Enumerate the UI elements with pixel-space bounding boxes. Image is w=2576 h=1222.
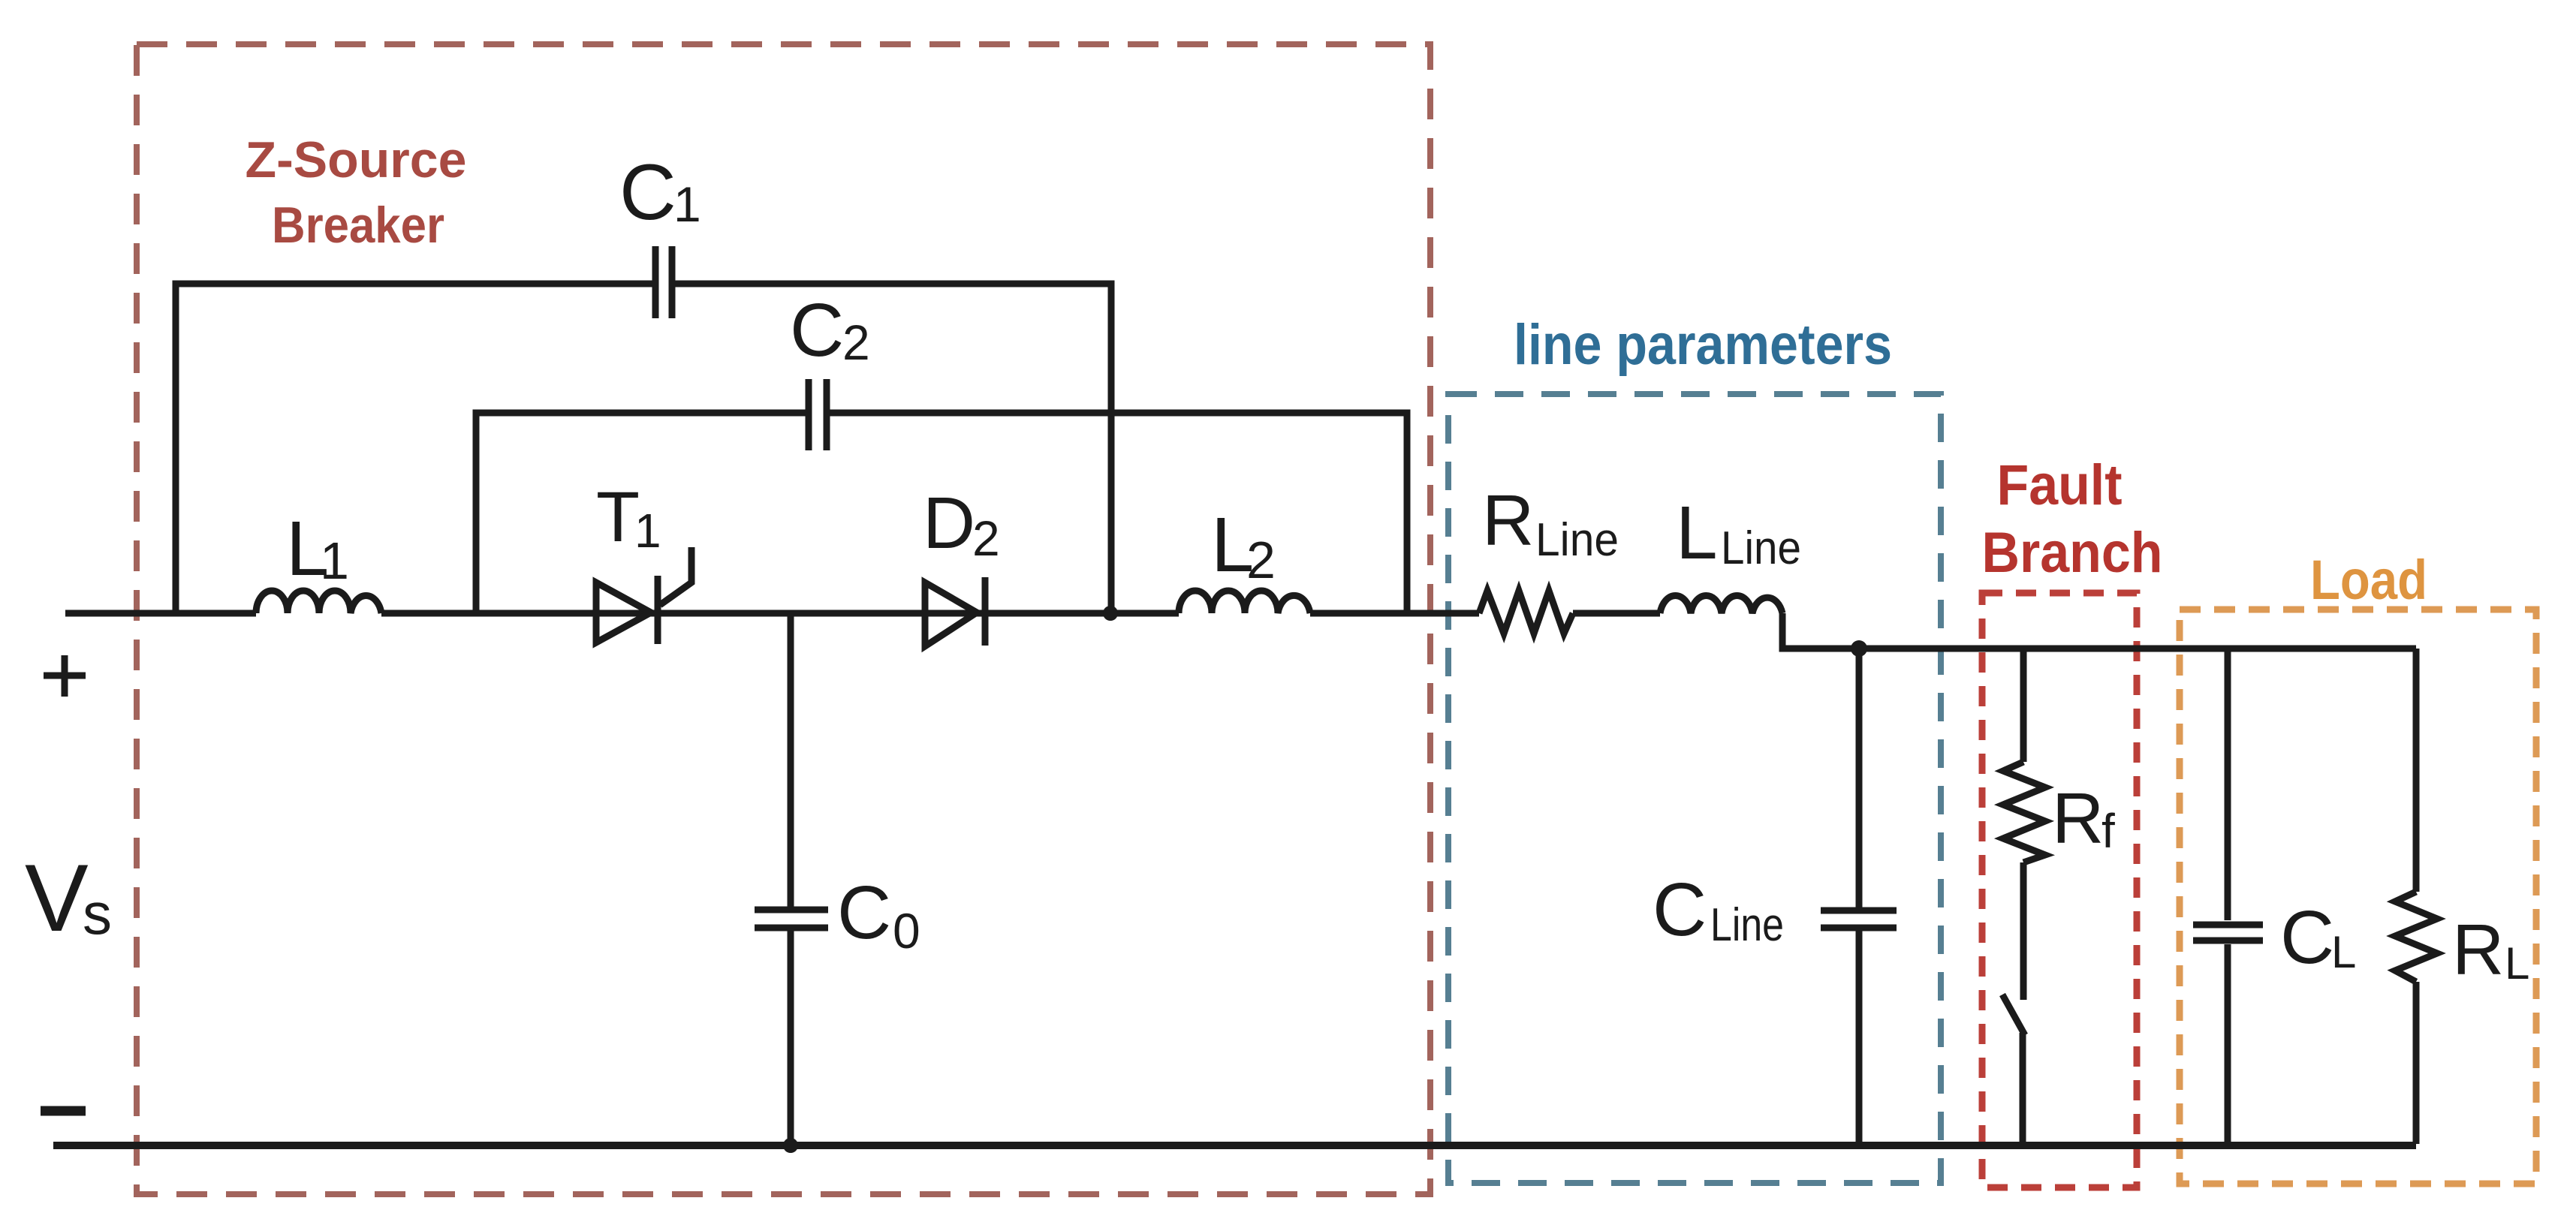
inductor LLine [1660, 596, 1782, 613]
svg-text:s: s [83, 880, 112, 947]
node: line output junction [1851, 640, 1867, 657]
svg-text:1: 1 [634, 504, 661, 558]
svg-text:2: 2 [1246, 531, 1276, 589]
svg-text:0: 0 [893, 903, 920, 959]
capacitor CLine [1821, 910, 1897, 928]
svg-text:f: f [2101, 804, 2115, 858]
svg-text:line parameters: line parameters [1514, 313, 1892, 377]
svg-text:R: R [2052, 778, 2104, 859]
svg-text:Branch: Branch [1982, 521, 2163, 585]
svg-text:V: V [25, 844, 89, 951]
svg-text:Line: Line [1710, 899, 1784, 951]
label: Vs [25, 844, 112, 951]
node: junction of C1 riser and main bus [1103, 606, 1118, 621]
label: T1 [596, 477, 661, 558]
label: CL [2280, 895, 2356, 980]
capacitor CL [2193, 925, 2263, 941]
svg-text:L: L [2505, 938, 2529, 989]
label: C2 [790, 288, 870, 372]
svg-text:R: R [1482, 480, 1534, 561]
svg-text:1: 1 [320, 531, 349, 590]
wire: C2 loop [476, 413, 1407, 613]
node: junction of C0 branch and bottom bus [783, 1138, 798, 1153]
label: C0 [837, 871, 920, 959]
svg-text:L: L [1676, 491, 1718, 575]
wire: fault branch lower [2020, 1033, 2026, 1144]
wire: RL branch lower [2413, 982, 2420, 1144]
label: RL [2452, 910, 2529, 990]
wire: main top bus, source to L1 [65, 610, 256, 617]
label: Z-Source Breaker [246, 131, 467, 254]
resistor RL [2395, 892, 2437, 982]
diode D2 [925, 577, 985, 646]
wire: RLine to LLine [1573, 610, 1660, 617]
label: Fault Branch [1982, 453, 2163, 585]
svg-text:Line: Line [1535, 514, 1619, 566]
svg-text:C: C [837, 871, 891, 955]
inductor L1 [256, 591, 381, 613]
svg-text:Line: Line [1721, 522, 1801, 574]
svg-text:C: C [619, 149, 676, 236]
Z-Source Breaker enclosure box [137, 44, 1430, 1194]
source terminal minus [41, 1106, 86, 1116]
label: CLine [1653, 868, 1784, 952]
svg-text:C: C [790, 288, 844, 372]
wire: CL branch [2225, 649, 2231, 1145]
Fault Branch enclosure box [1982, 593, 2137, 1187]
label: D2 [923, 482, 1000, 566]
svg-text:D: D [923, 482, 975, 564]
svg-text:T: T [596, 477, 640, 557]
svg-text:C: C [2280, 895, 2334, 980]
wire: line output step-down and right bus to load [1782, 613, 2416, 649]
thyristor T1 [596, 547, 691, 644]
resistor Rf [2003, 762, 2045, 862]
source terminal plus [44, 655, 86, 697]
wire: CLine branch [1856, 649, 1863, 1145]
svg-text:Load: Load [2310, 549, 2427, 611]
capacitor C1 [655, 246, 672, 318]
wire: C0 branch [788, 613, 794, 1145]
wire: main top bus, L1 through T1 and D2 to L2 [381, 610, 1179, 617]
inductor L2 [1179, 591, 1310, 613]
label: L2 [1211, 501, 1276, 589]
wire: main top bus, L2 to RLine [1310, 610, 1479, 617]
svg-text:R: R [2452, 910, 2504, 990]
wire: C1 loop (left riser, top run, right riser) [176, 284, 1111, 613]
wire: fault branch upper [2020, 649, 2027, 762]
svg-text:Breaker: Breaker [272, 197, 444, 254]
capacitor C2 [809, 379, 827, 450]
svg-text:2: 2 [842, 315, 870, 370]
label: C1 [619, 149, 701, 236]
line parameters enclosure box [1448, 394, 1941, 1183]
svg-text:1: 1 [673, 176, 701, 232]
label: L1 [286, 505, 349, 591]
wire: RL branch upper [2413, 649, 2420, 892]
resistor RLine [1479, 591, 1573, 634]
label: Rf [2052, 778, 2115, 859]
label: RLine [1482, 480, 1619, 566]
svg-text:Z-Source: Z-Source [246, 131, 467, 188]
label: LLine [1676, 491, 1801, 575]
switch blade (fault switch) [2002, 995, 2025, 1035]
wire: bottom return bus [53, 1142, 2416, 1149]
svg-text:C: C [1653, 868, 1707, 952]
svg-text:L: L [2331, 927, 2356, 977]
capacitor C0 [755, 910, 828, 928]
wire: fault branch middle [2020, 862, 2027, 1000]
svg-text:Fault: Fault [1997, 453, 2123, 517]
Load enclosure box [2180, 609, 2536, 1184]
svg-text:2: 2 [972, 510, 1000, 566]
